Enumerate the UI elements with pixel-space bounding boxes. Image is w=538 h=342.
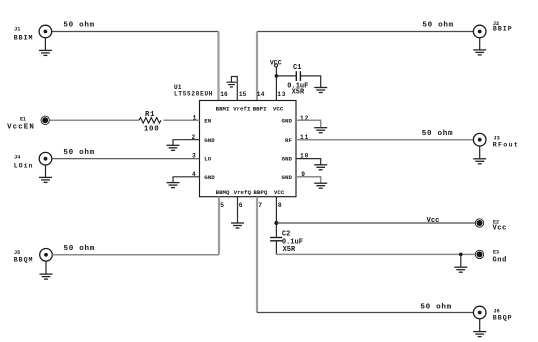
label J2 BBIP bbox=[493, 21, 513, 32]
svg-text:50 ohm: 50 ohm bbox=[422, 130, 454, 138]
wire pin 15 to ground hook bbox=[231, 77, 237, 101]
wire pin 12 to ground bbox=[296, 120, 321, 127]
wire BBMI vertical to pin 16 bbox=[217, 32, 219, 101]
label J4 LOin bbox=[14, 154, 34, 169]
svg-text:BBQM: BBQM bbox=[14, 256, 34, 263]
svg-text:15: 15 bbox=[239, 91, 247, 98]
wire ground stem E3 bbox=[460, 254, 462, 267]
svg-text:GND: GND bbox=[204, 137, 215, 144]
wire pin 6 to ground bbox=[237, 197, 239, 223]
svg-text:Gnd: Gnd bbox=[493, 257, 507, 265]
pin labels bottom inside bbox=[216, 189, 285, 196]
svg-text:8: 8 bbox=[278, 202, 282, 209]
svg-text:GND: GND bbox=[282, 156, 293, 163]
svg-text:LT5528EUH: LT5528EUH bbox=[174, 91, 213, 98]
svg-text:BBIM: BBIM bbox=[14, 34, 34, 41]
wire junction to C2 bbox=[275, 223, 277, 238]
wire pin 7 to J6 bbox=[257, 312, 473, 314]
svg-text:100: 100 bbox=[144, 126, 160, 134]
power VCC symbol bbox=[270, 59, 282, 67]
connector J1 bbox=[39, 25, 52, 38]
node VCC / C1 junction bbox=[275, 74, 279, 78]
label R1 100 bbox=[144, 111, 160, 133]
svg-text:VrefQ: VrefQ bbox=[234, 189, 252, 196]
label U1 LT5528EUH bbox=[174, 84, 213, 97]
svg-text:BBMQ: BBMQ bbox=[216, 189, 230, 196]
svg-text:14: 14 bbox=[257, 91, 265, 98]
ground near E3 bbox=[454, 267, 467, 272]
svg-text:6: 6 bbox=[239, 202, 243, 209]
svg-text:LOin: LOin bbox=[14, 163, 34, 170]
wire BBPI vertical to pin 14 bbox=[256, 32, 258, 101]
svg-text:VCC: VCC bbox=[274, 189, 285, 196]
svg-text:VCC: VCC bbox=[270, 59, 282, 66]
svg-text:GND: GND bbox=[282, 117, 293, 124]
svg-text:RFout: RFout bbox=[493, 141, 519, 148]
svg-text:50 ohm: 50 ohm bbox=[63, 22, 95, 30]
terminal E1 bbox=[41, 116, 49, 124]
op-amp U1 body bbox=[200, 101, 297, 197]
ground at pin 9 bbox=[314, 183, 327, 188]
svg-text:7: 7 bbox=[258, 202, 262, 209]
ground at pin 6 bbox=[231, 223, 244, 228]
ground below J4 bbox=[39, 165, 52, 182]
svg-text:16: 16 bbox=[220, 91, 228, 98]
svg-text:VccEN: VccEN bbox=[7, 124, 35, 132]
svg-text:LO: LO bbox=[204, 156, 211, 163]
wire pin 10 to ground bbox=[296, 159, 321, 165]
ground below J6 bbox=[473, 319, 486, 337]
wire pin 9 to ground bbox=[296, 177, 321, 183]
label J3 RFout bbox=[493, 136, 519, 149]
wire pin 2 to ground bbox=[173, 140, 200, 146]
svg-text:E3: E3 bbox=[493, 250, 499, 256]
label C2 0.1uF X5R bbox=[282, 231, 303, 254]
svg-text:C2: C2 bbox=[282, 231, 290, 239]
wire C2 to E3 Gnd bbox=[276, 253, 475, 255]
label E3 Gnd bbox=[493, 250, 507, 265]
label J6 BBQP bbox=[493, 309, 513, 322]
ground below J2 bbox=[473, 38, 486, 55]
pin numbers left bbox=[192, 114, 197, 177]
wire RF pin 11 to J3 bbox=[296, 139, 473, 141]
svg-text:BBMI: BBMI bbox=[216, 105, 230, 112]
ground below J3 bbox=[473, 146, 486, 164]
svg-text:50 ohm: 50 ohm bbox=[64, 245, 96, 253]
ground at pin 4 bbox=[167, 183, 180, 188]
svg-text:BBQP: BBQP bbox=[493, 315, 513, 322]
svg-text:GND: GND bbox=[282, 174, 293, 181]
ground at pin 12 bbox=[314, 128, 327, 133]
ground at pin 2 bbox=[167, 145, 180, 150]
wire R1 to pin 1 bbox=[164, 119, 200, 121]
terminal E2 bbox=[475, 219, 483, 227]
pin labels right inside bbox=[282, 117, 293, 180]
svg-text:X5R: X5R bbox=[283, 246, 296, 254]
svg-text:J1: J1 bbox=[14, 27, 20, 33]
pin numbers right bbox=[300, 115, 309, 178]
wire C2 down to Gnd rail bbox=[275, 241, 277, 255]
wire C1 to ground bbox=[300, 76, 320, 88]
svg-text:VrefI: VrefI bbox=[233, 105, 251, 112]
svg-text:BBIP: BBIP bbox=[493, 26, 513, 33]
svg-text:50 ohm: 50 ohm bbox=[420, 303, 452, 311]
pin labels left inside bbox=[204, 117, 215, 180]
connector J2 bbox=[473, 25, 486, 38]
wire junction to C1 bbox=[276, 75, 296, 77]
terminal E3 bbox=[475, 250, 483, 258]
connector J3 bbox=[473, 133, 486, 146]
pin labels top inside bbox=[216, 105, 284, 112]
svg-text:13: 13 bbox=[277, 91, 286, 98]
svg-text:EN: EN bbox=[204, 117, 211, 124]
svg-text:Vcc: Vcc bbox=[427, 217, 440, 225]
wire E1 to R1 bbox=[50, 119, 139, 121]
svg-text:RF: RF bbox=[285, 137, 292, 144]
wire pin 7 vertical bbox=[256, 197, 258, 313]
label E2 Vcc bbox=[493, 219, 507, 232]
wire pin 5 vertical bbox=[218, 197, 220, 255]
label 0.1uF X5R C1 bbox=[287, 82, 308, 96]
svg-text:J5: J5 bbox=[14, 250, 20, 256]
ground at C1 bbox=[314, 88, 327, 93]
svg-text:BBPI: BBPI bbox=[253, 105, 267, 112]
svg-text:J4: J4 bbox=[14, 154, 20, 160]
svg-text:GND: GND bbox=[204, 174, 215, 181]
wire pin 8 down bbox=[275, 197, 277, 223]
node pin8 Vcc junction bbox=[274, 221, 278, 225]
svg-text:BBPQ: BBPQ bbox=[253, 189, 267, 196]
wire J2 BBIP horizontal bbox=[257, 31, 473, 33]
connector J6 bbox=[473, 306, 486, 319]
capacitor C1 bbox=[296, 71, 300, 81]
pin numbers bottom bbox=[220, 202, 282, 209]
capacitor C2 bbox=[270, 238, 282, 241]
ground at pin 10 bbox=[314, 165, 327, 170]
pin numbers top bbox=[220, 91, 286, 98]
node ground tap bbox=[459, 253, 463, 257]
label E1 VccEN bbox=[7, 116, 35, 131]
svg-text:Vcc: Vcc bbox=[493, 225, 507, 233]
svg-text:5: 5 bbox=[220, 202, 224, 209]
svg-text:X5R: X5R bbox=[292, 88, 305, 96]
connector J5 bbox=[40, 249, 53, 262]
ground at pin 15 bbox=[226, 82, 236, 87]
svg-text:E1: E1 bbox=[20, 116, 26, 122]
wire junction to E2 Vcc bbox=[276, 222, 475, 224]
svg-text:VCC: VCC bbox=[273, 105, 284, 112]
wire pin 4 to ground bbox=[173, 177, 200, 183]
resistor R1 bbox=[139, 118, 161, 124]
svg-text:R1: R1 bbox=[145, 111, 155, 119]
svg-text:50 ohm: 50 ohm bbox=[63, 149, 95, 157]
ground below J5 bbox=[40, 261, 53, 279]
label J1 BBIM bbox=[14, 27, 34, 42]
wire J4 to pin 3 bbox=[52, 158, 200, 160]
connector J4 bbox=[39, 152, 52, 165]
wire J1 BBIM horizontal bbox=[52, 31, 219, 33]
wire VCC stem to pin 13 bbox=[275, 67, 277, 101]
svg-text:50 ohm: 50 ohm bbox=[422, 22, 454, 30]
label J5 BBQM bbox=[14, 250, 34, 263]
svg-text:C1: C1 bbox=[293, 64, 301, 72]
wire J5 to pin 5 bbox=[52, 254, 219, 256]
ground below J1 bbox=[39, 38, 52, 56]
